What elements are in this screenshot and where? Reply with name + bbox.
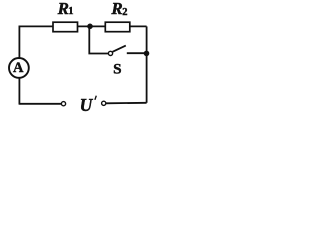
svg-text:U: U <box>80 95 94 114</box>
node junction dot between R1 and R2 <box>87 24 93 30</box>
switch S pivot terminal <box>108 51 112 55</box>
wire between R1 and R2 <box>78 25 106 27</box>
node junction dot right <box>144 51 150 57</box>
ammeter A <box>9 58 29 78</box>
resistor R1 <box>53 22 78 32</box>
wire switch branch (vertical drop and horizontal to switch) <box>89 26 108 53</box>
switch S blade (open) <box>113 46 126 52</box>
svg-text:2: 2 <box>122 7 127 18</box>
svg-text:R: R <box>57 0 69 18</box>
svg-text:S: S <box>113 60 121 77</box>
wire right side <box>146 26 148 102</box>
wire switch fixed contact to right <box>127 52 147 54</box>
svg-text:A: A <box>13 60 24 76</box>
svg-text:R: R <box>110 0 122 18</box>
svg-text:1: 1 <box>68 6 73 17</box>
wire top-left segment <box>19 25 53 27</box>
wire left lower (terminal to ammeter) <box>18 78 20 105</box>
wire top-right segment <box>130 25 147 27</box>
resistor R2 <box>105 22 130 32</box>
terminal left (open circle) <box>61 102 65 106</box>
wire left upper (ammeter to top) <box>18 26 20 59</box>
terminal right (open circle) <box>102 101 106 105</box>
wire bottom-left segment <box>19 103 61 105</box>
wire bottom-right segment <box>106 102 147 105</box>
